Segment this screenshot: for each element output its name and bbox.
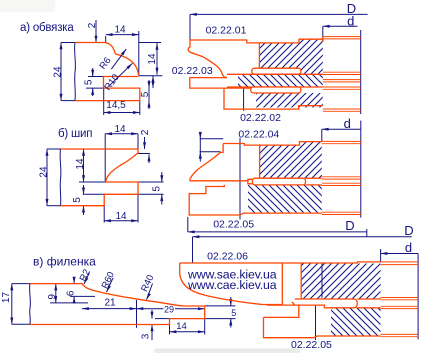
svg-text:5: 5 (151, 186, 162, 192)
svg-text:24: 24 (52, 66, 63, 78)
svg-text:D: D (345, 218, 354, 233)
svg-text:14: 14 (176, 321, 187, 332)
svg-text:14: 14 (114, 25, 126, 36)
svg-text:б) шип: б) шип (58, 128, 92, 140)
svg-text:2: 2 (140, 129, 151, 135)
svg-text:02.22.06: 02.22.06 (207, 251, 248, 263)
svg-text:d: d (347, 14, 354, 29)
svg-text:14: 14 (115, 211, 127, 222)
svg-text:24: 24 (38, 166, 49, 178)
svg-text:17: 17 (1, 292, 12, 304)
svg-text:5: 5 (231, 308, 236, 318)
svg-text:9: 9 (47, 294, 58, 300)
svg-text:02.22.01: 02.22.01 (206, 25, 247, 37)
svg-text:02.22.02: 02.22.02 (240, 112, 281, 124)
svg-text:в) филенка: в) филенка (33, 255, 96, 269)
svg-text:14: 14 (114, 124, 126, 135)
svg-text:D: D (404, 223, 413, 238)
svg-text:14,5: 14,5 (106, 100, 126, 111)
svg-text:6: 6 (65, 290, 76, 296)
svg-text:2: 2 (87, 22, 98, 28)
svg-text:5: 5 (84, 79, 95, 85)
svg-text:www.cae.kiev.ua: www.cae.kiev.ua (187, 278, 277, 292)
svg-text:02.22.03: 02.22.03 (172, 65, 213, 77)
svg-text:5: 5 (140, 91, 151, 97)
svg-text:02.22.05: 02.22.05 (213, 219, 254, 231)
svg-text:29: 29 (164, 305, 174, 315)
svg-text:d: d (344, 116, 351, 131)
svg-text:14: 14 (147, 53, 158, 65)
svg-text:14: 14 (75, 158, 86, 170)
svg-text:5: 5 (72, 197, 83, 203)
svg-text:02.22.04: 02.22.04 (238, 129, 279, 141)
svg-text:d: d (405, 240, 412, 255)
svg-text:02.22.05: 02.22.05 (291, 339, 332, 351)
svg-text:3: 3 (141, 333, 152, 339)
svg-text:а) обвязка: а) обвязка (20, 22, 74, 34)
svg-text:21: 21 (104, 298, 116, 309)
